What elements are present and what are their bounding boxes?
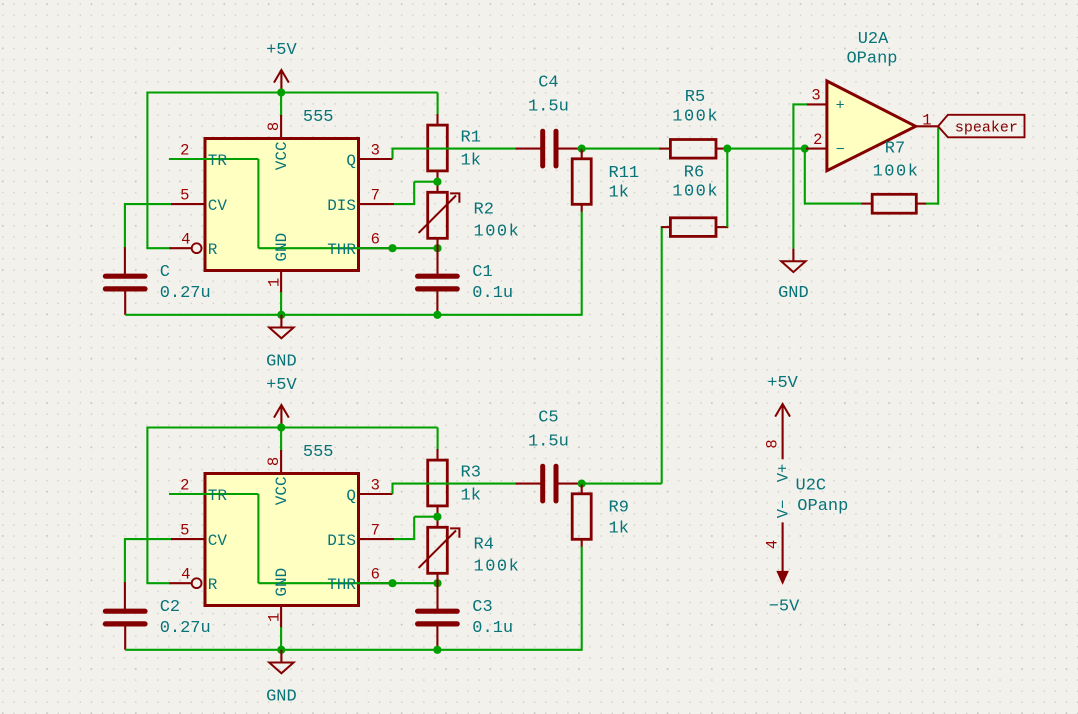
svg-text:7: 7 <box>371 522 380 540</box>
wire R6 right up <box>726 148 728 228</box>
capacitor C 0.27u <box>105 263 210 303</box>
svg-text:R9: R9 <box>609 498 629 517</box>
wire GND pin drop <box>280 627 282 650</box>
capacitor C2 lead bottom <box>124 624 126 650</box>
wire Q up <box>391 483 393 494</box>
wire + input stub <box>793 103 807 105</box>
op-amp U2C power pin 8 V+ <box>764 439 793 482</box>
capacitor C3 0.1u <box>418 598 514 638</box>
wire TR stub and crossing <box>169 158 258 160</box>
pin 7 DIS stub <box>360 538 394 540</box>
svg-text:DIS: DIS <box>327 197 356 215</box>
wire crossing vertical <box>257 159 259 248</box>
svg-text:−: − <box>836 141 845 158</box>
op-amp U2A pin 3 stub <box>806 103 827 105</box>
svg-text:0.27u: 0.27u <box>160 284 211 303</box>
svg-text:7: 7 <box>371 187 380 205</box>
junction R5/R6 right <box>723 145 731 153</box>
resistor R1 lead top <box>436 114 438 126</box>
svg-text:R6: R6 <box>684 163 704 182</box>
svg-text:1k: 1k <box>609 184 629 203</box>
svg-text:4: 4 <box>181 566 190 584</box>
svg-text:4: 4 <box>764 540 782 549</box>
wire GND pin drop <box>280 292 282 315</box>
svg-text:1: 1 <box>265 613 283 622</box>
junction THR pin <box>388 244 396 252</box>
wire THR to C1 <box>393 247 438 249</box>
wire CV horizontal <box>125 203 172 205</box>
svg-text:+5V: +5V <box>266 41 297 60</box>
svg-text:555: 555 <box>303 443 334 462</box>
wire DIS jog horizontal <box>414 181 437 183</box>
resistor R6 lead right <box>716 226 729 228</box>
pin numbers <box>180 122 380 287</box>
capacitor C lead bottom <box>124 289 126 315</box>
svg-text:+5V: +5V <box>767 374 798 393</box>
resistor R1 1k <box>428 125 481 171</box>
capacitor C5 lead left <box>516 483 541 485</box>
-5V power symbol <box>769 571 800 616</box>
wire link horizontal <box>581 483 662 485</box>
svg-text:5: 5 <box>180 187 189 205</box>
svg-text:8: 8 <box>764 439 782 448</box>
wire TR stub and crossing <box>169 493 258 495</box>
wire to op-amp inverting input <box>727 148 808 150</box>
wire reset vertical <box>146 92 148 249</box>
wire to R pin <box>146 247 171 249</box>
svg-text:1.5u: 1.5u <box>528 433 569 452</box>
wire ground rail <box>125 314 582 316</box>
op-amp U2A pin 2 stub <box>806 148 827 150</box>
op-amp U2A output pin stub <box>916 125 939 127</box>
trimmer R4 lead bottom <box>436 573 438 610</box>
svg-text:1k: 1k <box>461 151 481 170</box>
svg-text:6: 6 <box>371 566 380 584</box>
junction R1/R2 <box>433 178 441 186</box>
trimmer R2 lead bottom <box>436 238 438 275</box>
wire CV horizontal <box>125 538 172 540</box>
svg-text:R7: R7 <box>885 139 905 158</box>
junction THR pin <box>388 579 396 587</box>
pin 4 R stub with inversion bubble <box>170 578 202 588</box>
svg-text:OPanp: OPanp <box>797 497 848 516</box>
pin 8 VCC stub <box>280 115 282 139</box>
svg-text:C1: C1 <box>472 263 492 282</box>
op-amp U2C power pin 4 V- <box>764 500 793 572</box>
svg-text:R1: R1 <box>461 129 481 148</box>
capacitor C2 0.27u <box>105 598 210 638</box>
GND power symbol <box>266 315 297 372</box>
svg-text:2: 2 <box>180 142 189 160</box>
wire Q up <box>391 148 393 159</box>
resistor R5 100k <box>670 88 719 158</box>
wire feedback up to output <box>937 126 939 204</box>
resistor R3 lead top <box>436 449 438 461</box>
svg-text:1: 1 <box>265 278 283 287</box>
wire THR to C1 <box>393 582 438 584</box>
junction ground rail at C1 <box>433 311 441 319</box>
svg-text:100k: 100k <box>873 162 920 181</box>
resistor R7 100k <box>872 139 919 213</box>
svg-text:3: 3 <box>371 142 380 160</box>
junction after series cap <box>578 480 586 488</box>
+5V power symbol <box>266 376 297 428</box>
hierarchical label speaker <box>938 115 1024 138</box>
GND power symbol <box>266 650 297 707</box>
junction ground rail at C1 <box>433 646 441 654</box>
capacitor C4 lead left <box>516 148 541 150</box>
svg-text:C: C <box>160 263 170 282</box>
svg-text:GND: GND <box>273 233 291 262</box>
capacitor C5 1.5u <box>528 409 569 501</box>
wire cap to junction <box>578 148 583 150</box>
resistor R9 lead top <box>581 484 583 495</box>
wire crossing vertical <box>257 494 259 583</box>
svg-text:V+: V+ <box>775 464 793 483</box>
junction ground rail at GND pin <box>277 646 285 654</box>
svg-text:R4: R4 <box>474 536 494 555</box>
capacitor C3 lead bottom <box>436 624 438 650</box>
wire Q to series cap <box>393 483 517 485</box>
svg-text:DIS: DIS <box>327 532 356 550</box>
svg-text:R2: R2 <box>474 201 494 220</box>
wire CV drop to cap <box>124 203 126 248</box>
svg-text:3: 3 <box>811 87 820 105</box>
wire ground rail <box>125 649 582 651</box>
svg-text:THR: THR <box>327 576 356 594</box>
wire cap to junction <box>578 483 583 485</box>
555 timer IC body <box>205 474 359 606</box>
pin 4 R stub with inversion bubble <box>170 243 202 253</box>
svg-text:2: 2 <box>180 477 189 495</box>
wire Q to series cap <box>393 148 517 150</box>
svg-text:−5V: −5V <box>769 597 800 616</box>
svg-text:speaker: speaker <box>955 119 1018 136</box>
svg-text:R11: R11 <box>609 164 640 183</box>
svg-text:100k: 100k <box>474 558 521 577</box>
wire to R pin <box>146 582 171 584</box>
wire top rail <box>147 91 437 93</box>
wire R11 to ground rail <box>581 212 583 316</box>
wire VCC drop <box>280 93 282 117</box>
svg-text:R: R <box>208 576 218 594</box>
svg-text:1k: 1k <box>609 519 629 538</box>
wire link vertical <box>661 226 663 484</box>
svg-text:GND: GND <box>266 352 297 371</box>
pin 5 CV stub <box>171 203 204 205</box>
wire DIS jog to pin <box>394 538 415 540</box>
svg-text:R: R <box>208 241 218 259</box>
svg-text:R3: R3 <box>461 464 481 483</box>
svg-text:100k: 100k <box>672 183 719 202</box>
svg-text:V−: V− <box>775 500 793 519</box>
svg-text:0.27u: 0.27u <box>160 619 211 638</box>
svg-text:555: 555 <box>303 108 334 127</box>
junction THR/C1 <box>433 244 441 252</box>
op-amp U2C labels <box>796 476 849 516</box>
svg-text:0.1u: 0.1u <box>472 284 513 303</box>
capacitor C5 lead right <box>558 483 581 485</box>
svg-text:+5V: +5V <box>266 376 297 395</box>
svg-text:Q: Q <box>346 487 356 505</box>
pin 8 VCC stub <box>280 450 282 474</box>
resistor R5 lead right <box>716 148 729 150</box>
wire crossing to THR <box>258 582 392 584</box>
svg-text:5: 5 <box>180 522 189 540</box>
svg-text:3: 3 <box>371 477 380 495</box>
wire reset vertical <box>146 427 148 584</box>
svg-text:6: 6 <box>371 231 380 249</box>
capacitor C1 lead bottom <box>436 289 438 315</box>
wire DIS jog vertical <box>413 182 415 204</box>
wire feedback drop <box>804 149 806 205</box>
wire R9 to ground rail <box>581 547 583 651</box>
svg-text:100k: 100k <box>474 223 521 242</box>
wire top rail <box>147 426 437 428</box>
wire DIS jog horizontal <box>414 516 437 518</box>
pin 2 TR stub <box>170 158 204 160</box>
wire rail to R1 <box>437 93 439 116</box>
+5V power symbol <box>266 41 297 93</box>
pin 6 THR stub <box>360 582 393 584</box>
wire crossing to THR <box>258 247 392 249</box>
svg-text:GND: GND <box>778 284 809 303</box>
capacitor C4 1.5u <box>528 74 569 166</box>
pin 1 GND stub <box>280 270 282 293</box>
capacitor C lead top <box>124 247 126 274</box>
wire DIS jog to pin <box>394 203 415 205</box>
pin 2 TR stub <box>170 493 204 495</box>
pin 7 DIS stub <box>360 203 394 205</box>
wire rail to R1 <box>437 428 439 451</box>
capacitor C2 lead top <box>124 582 126 609</box>
resistor R7 lead left <box>862 203 874 205</box>
pin 5 CV stub <box>171 538 204 540</box>
resistor R5 lead left <box>659 148 671 150</box>
resistor R3 1k <box>428 460 481 506</box>
wire VCC drop <box>280 428 282 452</box>
resistor R11 1k <box>572 159 639 205</box>
junction at +5V rail <box>277 88 285 96</box>
capacitor C4 lead right <box>558 148 581 150</box>
svg-text:C4: C4 <box>538 74 558 93</box>
wire DIS jog vertical <box>413 517 415 539</box>
junction THR/C1 <box>433 579 441 587</box>
svg-text:0.1u: 0.1u <box>472 619 513 638</box>
svg-text:1k: 1k <box>461 486 481 505</box>
svg-text:1.5u: 1.5u <box>528 98 569 117</box>
svg-text:CV: CV <box>208 532 228 550</box>
555 timer IC body <box>205 139 359 271</box>
junction R3/R4 <box>433 513 441 521</box>
svg-text:VCC: VCC <box>273 141 291 170</box>
svg-text:U2A: U2A <box>858 30 889 49</box>
resistor R11 lead top <box>581 149 583 160</box>
resistor R6 lead left <box>661 226 671 228</box>
svg-text:8: 8 <box>265 122 283 131</box>
svg-text:100k: 100k <box>672 107 719 126</box>
wire + input to ground <box>792 103 794 248</box>
555 timer IC labels <box>208 443 357 597</box>
resistor R6 100k <box>670 163 719 236</box>
pin numbers <box>180 457 380 622</box>
resistor R9 1k <box>572 494 629 540</box>
junction feedback node <box>801 145 809 153</box>
svg-text:Q: Q <box>346 152 356 170</box>
GND power symbol at op-amp <box>778 249 809 303</box>
svg-text:GND: GND <box>273 568 291 597</box>
resistor R11 lead bottom <box>581 204 583 212</box>
svg-text:C3: C3 <box>472 598 492 617</box>
wire CV drop to cap <box>124 538 126 583</box>
junction ground rail at GND pin <box>277 311 285 319</box>
pin 3 Q stub <box>360 158 393 160</box>
svg-text:OPanp: OPanp <box>846 50 897 69</box>
resistor R7 lead right <box>916 203 927 205</box>
op-amp U2A pin numbers <box>811 87 931 149</box>
svg-text:2: 2 <box>813 131 822 149</box>
+5V power symbol at U2C <box>767 374 798 460</box>
svg-text:CV: CV <box>208 197 228 215</box>
capacitor C1 0.1u <box>418 263 514 303</box>
svg-text:8: 8 <box>265 457 283 466</box>
svg-text:TR: TR <box>208 152 228 170</box>
resistor R3 lead bottom <box>436 506 438 528</box>
svg-text:+: + <box>836 97 845 114</box>
svg-text:C5: C5 <box>538 409 558 428</box>
wire feedback right <box>926 203 938 205</box>
svg-text:C2: C2 <box>160 598 180 617</box>
svg-text:4: 4 <box>181 231 190 249</box>
op-amp U2A body <box>827 30 916 171</box>
pin 3 Q stub <box>360 493 393 495</box>
wire to R5 <box>582 148 661 150</box>
svg-text:R5: R5 <box>685 88 705 107</box>
resistor R9 lead bottom <box>581 539 583 547</box>
trimmer R4 100k <box>419 527 521 576</box>
svg-text:VCC: VCC <box>273 476 291 505</box>
555 timer IC labels <box>208 108 357 262</box>
pin 1 GND stub <box>280 605 282 628</box>
svg-text:U2C: U2C <box>796 476 827 495</box>
pin 6 THR stub <box>360 247 393 249</box>
trimmer R2 100k <box>419 192 521 241</box>
svg-text:GND: GND <box>266 687 297 706</box>
svg-text:TR: TR <box>208 487 228 505</box>
junction after series cap <box>578 145 586 153</box>
junction at +5V rail <box>277 423 285 431</box>
resistor R1 lead bottom <box>436 171 438 193</box>
svg-text:THR: THR <box>327 241 356 259</box>
wire feedback horizontal <box>805 203 863 205</box>
